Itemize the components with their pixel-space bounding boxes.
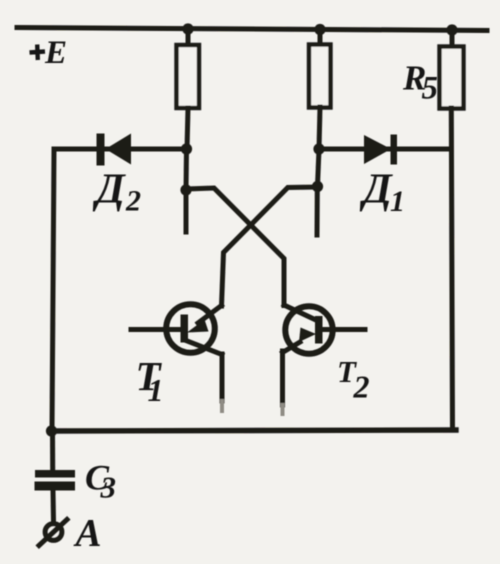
- svg-text:Д: Д: [92, 167, 126, 213]
- wire: bottom rail: [52, 430, 457, 431]
- diode Д1: [364, 135, 397, 165]
- wire: R1 top lead: [186, 29, 191, 46]
- node: rail / R5 junction: [446, 24, 457, 35]
- svg-text:A: A: [73, 512, 102, 555]
- svg-text:Д: Д: [359, 167, 393, 213]
- wire: capacitor top lead: [50, 431, 55, 471]
- diode Д1 anode wire: [319, 147, 450, 152]
- diode Д2 anode wire: [54, 147, 186, 152]
- node: R2 lead / Д1 junction: [313, 143, 324, 154]
- node: rail / R1 junction: [182, 23, 193, 34]
- wire: cross-coupling right node to T1 emitter region: [222, 187, 318, 306]
- svg-text:E: E: [44, 35, 67, 71]
- svg-text:1: 1: [148, 372, 164, 408]
- node: bottom-left junction: [46, 425, 57, 436]
- wire: left collector link: [184, 149, 190, 190]
- terminal A: [39, 520, 67, 546]
- capacitor C3: [35, 470, 76, 491]
- wire: R2 top lead: [318, 29, 323, 46]
- wire: R5 top lead: [450, 30, 455, 47]
- wire: R1 bottom lead: [187, 108, 188, 149]
- wire: +E supply rail: [17, 28, 487, 31]
- wire: capacitor bottom lead: [51, 491, 57, 521]
- svg-text:3: 3: [100, 470, 117, 505]
- wire: stub below right collector node: [315, 186, 320, 235]
- wire: right vertical (R5 bottom lead down to bottom rail): [451, 108, 452, 430]
- svg-text:2: 2: [125, 185, 141, 218]
- svg-text:2: 2: [353, 369, 370, 405]
- wire: stub below left collector node: [184, 190, 189, 232]
- node: T2 collector node: [312, 181, 323, 192]
- node: T1 collector node: [180, 184, 191, 195]
- wire: R2 bottom lead: [319, 107, 320, 149]
- svg-text:5: 5: [422, 71, 439, 107]
- transistor T1: [131, 304, 222, 354]
- wire: left vertical: [52, 149, 54, 431]
- resistor R5: [440, 47, 464, 109]
- label +E: [30, 45, 46, 61]
- wire: T1 lower lead: [220, 354, 225, 401]
- wire: cross-coupling left node to T2 base region: [186, 188, 284, 306]
- resistor R1: [177, 45, 200, 108]
- resistor R2: [309, 45, 331, 108]
- svg-text:1: 1: [390, 185, 405, 218]
- transistor T2: [283, 305, 366, 354]
- wire: T2 lower lead: [280, 351, 285, 405]
- node: R1 lead / Д2 junction: [181, 143, 192, 154]
- diode Д2: [97, 134, 132, 166]
- node: rail / R2 junction: [314, 24, 325, 35]
- wire: right collector link: [318, 149, 320, 186]
